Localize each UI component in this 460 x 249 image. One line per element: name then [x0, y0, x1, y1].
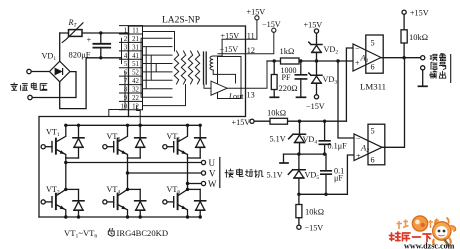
svg-text:+: + [87, 35, 92, 45]
svg-text:52: 52 [132, 70, 139, 77]
node junction [336, 59, 339, 62]
wire node N rail [299, 155, 354, 194]
svg-text:8: 8 [124, 87, 128, 94]
wire pin11 [222, 20, 257, 39]
svg-text:11: 11 [132, 28, 139, 35]
svg-text:22: 22 [132, 95, 139, 102]
wire secondary bottom [213, 70, 235, 83]
wire [31, 71, 49, 73]
logo small text right [429, 219, 440, 229]
svg-text:31: 31 [132, 44, 139, 51]
svg-text:LA2S-NP: LA2S-NP [162, 16, 200, 26]
svg-text:+: + [356, 152, 361, 161]
svg-text:VD3: VD3 [323, 75, 338, 86]
svg-text:11: 11 [247, 31, 255, 40]
zener diode VD2 [316, 33, 318, 61]
svg-text:VT4: VT4 [107, 185, 121, 196]
node junction [402, 56, 405, 59]
winding loop 3 [143, 55, 173, 80]
sensor block LA2S-NP outline [129, 26, 246, 117]
svg-text:2: 2 [124, 36, 128, 43]
svg-text:6: 6 [371, 63, 375, 72]
op-amp U1 [211, 81, 227, 95]
wire V line [128, 172, 202, 174]
svg-text:12: 12 [132, 103, 139, 110]
output terminal 2 [421, 66, 425, 70]
svg-text:13: 13 [247, 91, 255, 100]
svg-text:+15V: +15V [221, 31, 240, 40]
transistor VT3 [103, 124, 146, 158]
resistor 220 [273, 61, 275, 97]
label AC voltage (Chinese) [11, 83, 18, 91]
svg-text:4: 4 [124, 53, 128, 60]
secondary winding [210, 56, 213, 70]
node junction [297, 193, 300, 196]
terminal numbers 11-12 [132, 28, 139, 111]
node junction [297, 152, 300, 155]
wire A1 output [381, 57, 421, 59]
svg-text:10kΩ: 10kΩ [267, 108, 286, 118]
node junction [315, 59, 318, 62]
label connect motor (Chinese) [225, 169, 233, 177]
svg-text:220Ω: 220Ω [279, 83, 298, 93]
svg-text:IRG4BC20KD: IRG4BC20KD [117, 228, 169, 238]
svg-text:VT1: VT1 [46, 128, 60, 139]
svg-text:1: 1 [124, 28, 127, 35]
svg-text:−15V: −15V [220, 45, 239, 54]
wire [60, 32, 129, 34]
bracket motor [219, 158, 221, 188]
svg-text:RT: RT [68, 18, 78, 29]
svg-text:V: V [209, 169, 216, 179]
svg-text:−15V: −15V [306, 102, 325, 111]
power terminal +15V bottom [250, 119, 254, 123]
primary winding zigzag 3 [188, 51, 192, 84]
node junction [99, 31, 102, 34]
wire W line [188, 183, 202, 185]
svg-text:+15V: +15V [304, 21, 323, 30]
watermark logo dzsc [390, 216, 456, 249]
bridge rectifier VD1 [50, 61, 71, 82]
ground [270, 96, 278, 98]
power terminal -15V bottom [297, 225, 301, 229]
resistor 10k lower [298, 194, 300, 225]
capacitor 820uF [100, 33, 102, 43]
node junction [99, 56, 102, 59]
capacitor 0.1uF first [324, 121, 326, 154]
svg-text:32: 32 [132, 87, 139, 94]
capacitor 1000pF [300, 61, 302, 97]
zener diode VD4 [299, 121, 301, 154]
svg-text:5: 5 [124, 61, 128, 68]
transistor VT5 [163, 124, 206, 158]
node junction [299, 59, 302, 62]
A2 box [368, 124, 385, 165]
node junction [64, 161, 67, 164]
svg-text:U: U [209, 158, 216, 168]
ground symbol [283, 154, 285, 162]
wire U line [66, 162, 202, 164]
svg-text:820μF: 820μF [69, 50, 91, 60]
primary winding zigzag 1 [174, 51, 178, 84]
node AC terminal 2 [28, 95, 32, 99]
wire bottom bus [39, 216, 200, 218]
wire [59, 33, 61, 61]
winding loop 4 [143, 64, 173, 72]
wire phase V vertical [127, 158, 129, 189]
power terminal -15V top [272, 28, 276, 32]
power terminal -15V (VD3) [314, 95, 318, 99]
power terminal +15V right [402, 10, 406, 14]
capacitor 0.1uF second [325, 154, 327, 194]
logo small text left [397, 220, 409, 230]
svg-text:41: 41 [132, 53, 139, 60]
transistor VT4 [103, 188, 146, 219]
resistor RT [62, 23, 83, 43]
wire amp input [204, 85, 211, 89]
wire [32, 72, 76, 98]
svg-text:5.1V: 5.1V [267, 171, 283, 180]
svg-text:6: 6 [371, 156, 375, 165]
resistor 10k ref [270, 118, 288, 124]
svg-text:VD1: VD1 [42, 52, 57, 63]
svg-text:VT2: VT2 [46, 185, 60, 196]
svg-text:51: 51 [132, 61, 139, 68]
wire A2 output [382, 58, 405, 148]
svg-text:www.dzsc.com: www.dzsc.com [404, 241, 455, 249]
motor terminal V [201, 171, 205, 175]
amp box [218, 57, 242, 99]
svg-text:−15V: −15V [262, 20, 281, 29]
label error signal output (Chinese) [430, 54, 437, 60]
wire pin jumper bus B [124, 72, 126, 97]
wire A2 minus input [338, 61, 354, 138]
core bars [204, 52, 207, 84]
svg-text:μF: μF [334, 174, 343, 183]
svg-text:42: 42 [132, 78, 139, 85]
winding loop 1 [141, 38, 172, 97]
node junction [323, 152, 326, 155]
node junction [139, 124, 142, 127]
svg-text:+15V: +15V [410, 8, 429, 17]
resistor 1k [281, 58, 300, 64]
power terminal +15V (VD2) [314, 29, 318, 33]
svg-text:21: 21 [132, 36, 139, 43]
power terminal +15V top [255, 16, 259, 20]
zener diode VD5 [298, 154, 300, 194]
wire row1 to winding [143, 32, 175, 52]
wire ground rail [284, 153, 327, 155]
node AC terminal 1 [27, 69, 31, 73]
svg-text:+15V: +15V [247, 8, 266, 17]
logo text red weiku yixia [390, 232, 432, 242]
svg-text:+: + [355, 59, 360, 68]
svg-text:3: 3 [124, 44, 128, 51]
transistor VT1 [41, 124, 84, 158]
wire [60, 58, 86, 109]
svg-text:VT3: VT3 [107, 132, 121, 143]
primary winding zigzag 2 [181, 51, 185, 84]
op-amp A2 [354, 134, 382, 161]
node junction [324, 193, 327, 196]
svg-text:out: out [233, 92, 244, 101]
svg-text:1kΩ: 1kΩ [280, 46, 295, 56]
svg-text:5: 5 [371, 127, 375, 136]
logo mascot [433, 218, 456, 247]
primary winding zigzag 4 [195, 51, 199, 84]
svg-text:−: − [355, 45, 360, 54]
wire node P rail [254, 120, 270, 122]
zener diode VD3 [316, 61, 318, 95]
A1 box [366, 35, 383, 73]
pin numbers 1-10 [121, 28, 128, 111]
node junction [186, 182, 189, 185]
svg-text:9: 9 [124, 95, 128, 102]
wire pin12 [218, 32, 274, 54]
svg-text:VD4: VD4 [303, 135, 318, 146]
wire A1 minus input [346, 48, 353, 121]
svg-text:5: 5 [371, 39, 375, 48]
node junction [323, 120, 326, 123]
wire pin jumper bus A [121, 38, 123, 63]
ground output [422, 70, 424, 86]
transistor VT6 [163, 188, 206, 219]
node junction [273, 59, 276, 62]
svg-text:−15V: −15V [305, 224, 324, 233]
node junction [298, 120, 301, 123]
svg-text:−: − [356, 135, 361, 144]
logo emblem circle [412, 216, 427, 231]
op-amp A1 [353, 44, 381, 71]
motor terminal U [201, 160, 205, 164]
svg-text:I: I [228, 92, 233, 101]
wire top bus [66, 124, 200, 126]
svg-text:VT6: VT6 [167, 185, 181, 196]
wire phase W vertical [187, 158, 189, 189]
wire [86, 57, 121, 59]
wire Iout pin13 [227, 61, 267, 88]
svg-text:6: 6 [124, 70, 128, 77]
wire phase U vertical [65, 158, 67, 189]
output terminal 1 [421, 56, 425, 60]
svg-text:10kΩ: 10kΩ [409, 32, 428, 42]
svg-text:VD2: VD2 [324, 45, 339, 56]
winding loop 2 [143, 47, 173, 89]
svg-text:1000PF: 1000PF [281, 66, 297, 82]
svg-text:LM311: LM311 [360, 82, 386, 92]
wire pin9 jog to left rail [109, 97, 125, 116]
wire secondary top to pin11 [213, 39, 222, 56]
transistor VT2 [41, 188, 84, 219]
svg-text:VT1~VT6: VT1~VT6 [64, 228, 97, 240]
svg-text:W: W [208, 179, 217, 189]
node junction [126, 171, 129, 174]
ground [297, 96, 306, 98]
svg-text:0.1μF: 0.1μF [328, 142, 348, 151]
motor terminal W [201, 181, 205, 185]
svg-text:10kΩ: 10kΩ [305, 207, 324, 217]
wire pin10 jog to top bus [137, 106, 141, 126]
svg-text:VD5: VD5 [305, 171, 320, 182]
wire node M [267, 60, 353, 62]
svg-text:VT5: VT5 [167, 132, 181, 143]
resistor 10k pullup [403, 14, 405, 57]
wire DC minus to bottom bus [39, 117, 129, 218]
wire row10 to winding [143, 85, 186, 106]
svg-text:5.1V: 5.1V [270, 135, 286, 144]
svg-text:+15V: +15V [232, 118, 251, 127]
pin table grid [120, 26, 143, 110]
svg-text:12: 12 [247, 46, 255, 55]
bracket output [450, 54, 452, 83]
svg-text:7: 7 [124, 78, 128, 85]
